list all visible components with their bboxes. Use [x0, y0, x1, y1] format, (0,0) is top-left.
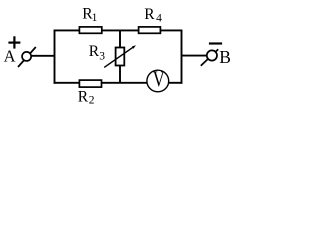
wire: terminal A lead	[31, 55, 55, 57]
rheostat R3	[116, 48, 125, 66]
wire: bottom rail	[54, 82, 148, 84]
resistor R2	[79, 80, 101, 87]
terminal A slash	[18, 47, 36, 67]
plus sign	[8, 41, 20, 43]
svg-text:V: V	[153, 66, 165, 91]
svg-text:R: R	[144, 6, 155, 23]
terminal B slash	[201, 49, 218, 65]
resistor R4	[139, 27, 161, 33]
wire: right bus vertical	[181, 30, 183, 84]
voltmeter V	[147, 70, 169, 92]
resistor R1	[79, 27, 101, 33]
wire: terminal B lead	[182, 55, 208, 57]
rheostat R3 arrow	[104, 47, 134, 68]
svg-text:1: 1	[92, 12, 98, 24]
wire: R3 branch vertical	[119, 30, 121, 82]
wire: voltmeter right lead	[168, 82, 182, 84]
minus sign	[209, 42, 222, 44]
svg-text:B: B	[219, 47, 231, 67]
wire: top rail	[54, 29, 183, 31]
svg-text:2: 2	[89, 95, 95, 107]
terminal B circle	[207, 50, 217, 60]
wire: left bus vertical	[54, 30, 56, 84]
svg-text:3: 3	[99, 51, 105, 63]
svg-text:4: 4	[156, 12, 162, 24]
svg-text:R: R	[78, 88, 89, 105]
terminal A circle	[22, 52, 31, 61]
svg-text:A: A	[4, 47, 16, 66]
svg-text:R: R	[89, 43, 100, 60]
